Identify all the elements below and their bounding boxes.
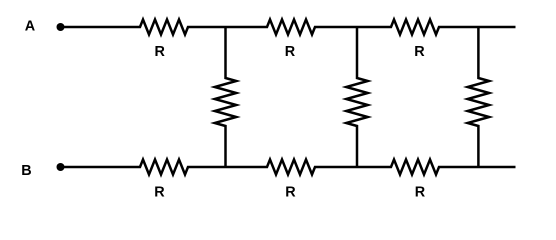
svg-text:R: R [285,44,296,60]
svg-text:B: B [21,163,31,179]
svg-text:A: A [25,18,36,34]
svg-text:R: R [154,44,165,60]
svg-text:R: R [415,184,426,200]
svg-text:R: R [414,44,425,60]
svg-text:R: R [154,184,165,200]
svg-text:R: R [285,184,296,200]
